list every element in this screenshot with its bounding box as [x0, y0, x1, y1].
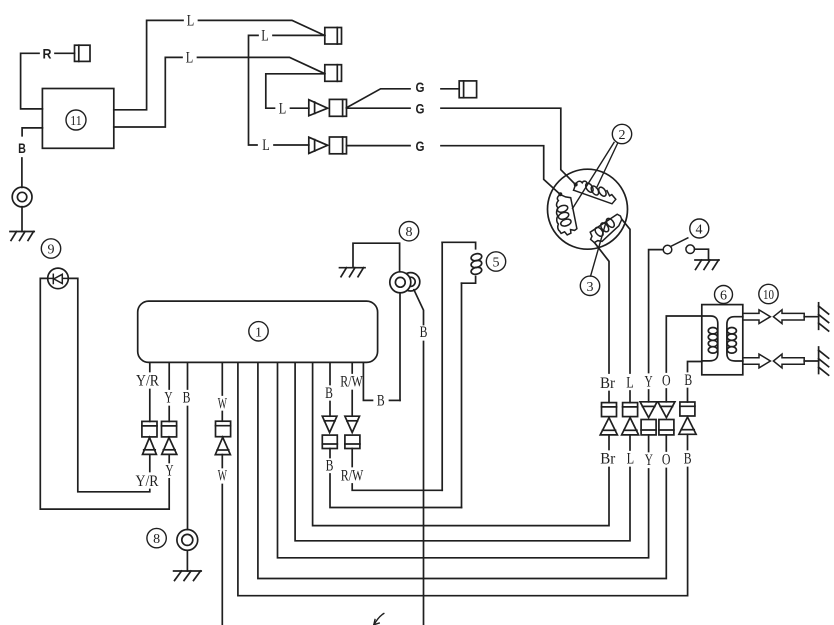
wire B column to transformer [688, 362, 702, 372]
connector (socket+bullet) Y [162, 421, 177, 454]
wire switch to Y column [649, 250, 664, 373]
svg-text:L: L [262, 137, 270, 154]
svg-text:L: L [627, 451, 635, 468]
ground [340, 268, 366, 277]
svg-text:2: 2 [619, 128, 626, 143]
leader to top coil [597, 144, 618, 189]
pin Y/R [149, 362, 151, 371]
wire O column to transformer [666, 316, 702, 372]
bulb socket (position lamp 1) [325, 28, 342, 45]
wire Y to rectifier 9 [40, 278, 169, 509]
horn 1 (middle row) [309, 99, 347, 116]
svg-text:Y/R: Y/R [136, 473, 159, 490]
connector (socket+bullet) B [679, 402, 696, 434]
wire pin6 to O column [258, 362, 666, 578]
svg-text:9: 9 [48, 243, 55, 258]
svg-text:B: B [18, 140, 26, 156]
connector (bullet+socket) Y [640, 402, 657, 435]
label 2 [612, 124, 631, 143]
ring terminal [177, 530, 198, 551]
svg-text:B: B [684, 372, 692, 389]
svg-text:R/W: R/W [340, 373, 363, 390]
wire B from unit 11 [22, 128, 42, 136]
ignition coil 5 [442, 242, 482, 283]
svg-text:3: 3 [587, 280, 594, 295]
connector (socket+bullet) W [215, 421, 230, 454]
wire coil5 right lead down [461, 283, 463, 507]
wire ring to B elbow [399, 293, 401, 401]
svg-text:G: G [416, 138, 425, 154]
wire to G connector [347, 89, 411, 108]
wire ring diagonal B [414, 290, 424, 325]
pickup rings (CDI magneto leads) [390, 272, 420, 293]
ground [695, 260, 719, 270]
svg-text:L: L [186, 50, 194, 67]
wire L from source coil [622, 219, 630, 373]
wire Y/R to rectifier 9 [69, 278, 150, 491]
wire pin5 to B column (outermost loop) [238, 362, 688, 595]
label 10 [759, 284, 778, 303]
wire trunk L (left branch) [249, 35, 259, 145]
svg-text:L: L [279, 100, 287, 117]
svg-text:Br: Br [600, 375, 616, 392]
svg-text:11: 11 [70, 114, 82, 129]
svg-text:O: O [662, 373, 671, 390]
connector (bullet+socket) B [322, 416, 337, 448]
pin B (to frame ground) [187, 362, 189, 389]
label 8 (engine ground) [399, 222, 418, 241]
label 3 [580, 276, 599, 295]
node (dot, lighting coil lead 2) [558, 192, 562, 196]
wire pin9 to Br column [313, 362, 609, 525]
connector (socket+bullet) Y/R [142, 421, 157, 454]
pin R/W [351, 362, 353, 373]
svg-text:8: 8 [153, 532, 160, 547]
svg-text:10: 10 [763, 288, 774, 303]
connector (R lead) [75, 45, 91, 61]
svg-text:Y/R: Y/R [136, 373, 159, 390]
svg-text:B: B [325, 385, 333, 402]
pin B (to pickup rings) [363, 362, 372, 400]
node (dot, lighting coil lead) [574, 183, 578, 187]
bulb socket (position lamp 2) [325, 65, 342, 82]
svg-text:W: W [218, 468, 228, 485]
wire L (headlight feed 1) [114, 20, 183, 109]
svg-text:W: W [218, 396, 228, 413]
label 8 [147, 528, 166, 547]
svg-text:B: B [326, 458, 334, 475]
svg-text:G: G [416, 101, 425, 117]
wire R/W to coil5 [352, 484, 442, 490]
source coil (3, bottom) [590, 214, 622, 242]
rectifier 9 [48, 268, 69, 289]
wire W to edge [221, 485, 223, 625]
connector (socket+bullet) Br [600, 403, 617, 435]
leader to source coil [591, 223, 606, 276]
wire pin8 to L column [295, 362, 630, 540]
arrow mark (bottom) [374, 614, 384, 625]
connector (bullet+socket) R/W [345, 416, 360, 448]
connector (G lead) [459, 81, 476, 98]
switch 4 [663, 238, 694, 254]
transformer 6 [702, 305, 743, 375]
svg-text:B: B [684, 451, 692, 468]
svg-text:6: 6 [720, 289, 727, 304]
lighting coil (2, left) [557, 195, 577, 235]
svg-text:R: R [43, 46, 52, 62]
wire [21, 158, 23, 187]
wire coil5 left lead down [441, 242, 443, 490]
ground [10, 232, 34, 241]
wire L (headlight feed 2) [114, 57, 182, 127]
leader to left coil [573, 143, 615, 209]
wire B to coil5 [330, 474, 462, 508]
ground (rotated) [819, 303, 829, 331]
svg-text:Y: Y [645, 452, 654, 469]
pin B (to ignition coil) [329, 362, 331, 384]
wire B down to edge [423, 342, 425, 625]
horn 2 (bottom row) [309, 137, 347, 154]
wire G (to magneto) [347, 145, 411, 147]
svg-text:Y: Y [165, 463, 174, 480]
connector (bullet+socket) O [658, 402, 675, 435]
svg-text:5: 5 [493, 256, 500, 271]
label 5 [486, 252, 505, 271]
svg-text:G: G [416, 79, 425, 95]
svg-text:R/W: R/W [341, 467, 364, 484]
ground [174, 571, 202, 581]
svg-text:1: 1 [255, 325, 262, 340]
unit 11 [42, 89, 113, 149]
wire switch to ground [695, 249, 709, 260]
magneto flywheel circle [548, 169, 628, 249]
pin W [221, 362, 223, 395]
svg-text:8: 8 [406, 225, 413, 240]
label 4 [690, 219, 709, 238]
lighting coil (2, top) [574, 181, 616, 204]
wire trunk L (second branch) [266, 74, 325, 108]
ring terminal [12, 187, 32, 207]
wire Br from source coil [595, 243, 610, 373]
svg-text:Y: Y [645, 374, 654, 391]
svg-text:4: 4 [696, 223, 703, 238]
wire ground bracket [353, 243, 400, 272]
connector (socket+bullet) L [622, 403, 639, 435]
plug lead arrows 10 (top) [743, 310, 804, 324]
svg-text:O: O [662, 452, 671, 469]
wire [21, 207, 23, 232]
pin Y [168, 362, 170, 389]
svg-text:L: L [187, 13, 195, 30]
label 6 [715, 286, 733, 304]
wire pin7 to Y column [278, 362, 649, 557]
svg-text:B: B [420, 324, 428, 341]
svg-text:L: L [626, 375, 634, 392]
label 9 [41, 239, 60, 258]
CDI unit 1 [138, 301, 378, 362]
svg-text:B: B [183, 390, 191, 407]
svg-text:B: B [377, 393, 385, 410]
ground (rotated) [819, 347, 829, 375]
svg-text:Y: Y [164, 390, 173, 407]
wire G (to magneto lighting coil) [347, 107, 411, 109]
svg-text:L: L [261, 28, 269, 45]
wire R from unit 11 [21, 53, 43, 109]
plug lead arrows 10 (bottom) [743, 354, 804, 368]
svg-text:Br: Br [600, 451, 616, 468]
